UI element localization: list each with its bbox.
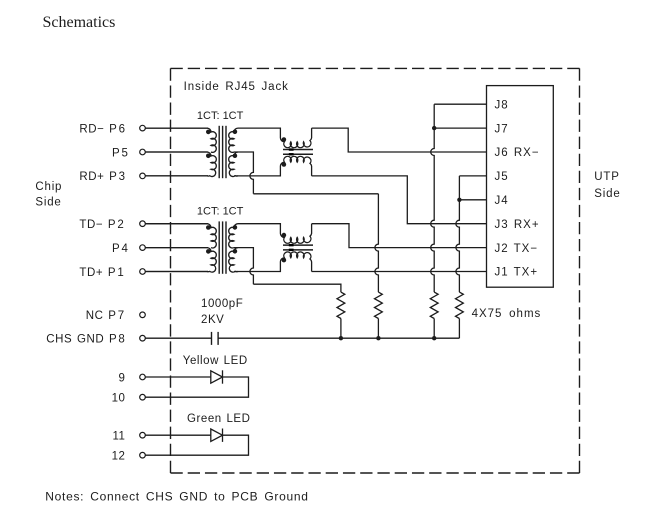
dot choke L1 bottom	[282, 162, 287, 167]
wire P2 to transformer	[145, 223, 208, 225]
secondary winding T1	[229, 128, 238, 152]
svg-text:10: 10	[112, 393, 126, 405]
wire J8	[434, 103, 486, 105]
core of transformer T2	[218, 221, 220, 273]
wire P3 to transformer	[145, 175, 208, 177]
pin circle 12	[140, 452, 146, 458]
pin circle P1	[140, 269, 146, 275]
wire P6 to transformer	[145, 127, 208, 129]
wire RX+ choke to J3	[312, 176, 487, 224]
svg-text:11: 11	[112, 431, 125, 443]
svg-text:UTP: UTP	[594, 171, 619, 183]
wire vertical J5-J4 to R4	[456, 176, 460, 292]
svg-text:9: 9	[119, 372, 126, 384]
choke L1 bottom winding	[238, 156, 312, 176]
pin circle P2	[140, 221, 146, 227]
polarity dots T2 primary	[206, 225, 211, 230]
dashed enclosure Inside RJ45 Jack	[171, 67, 580, 69]
pin circle 11	[140, 432, 146, 438]
wire vertical J8-J7 to R3	[431, 104, 434, 292]
svg-text:NC P7: NC P7	[86, 310, 126, 322]
wire T1 secondary center tap to R2	[234, 152, 253, 194]
secondary winding T2	[229, 224, 238, 248]
svg-text:Yellow LED: Yellow LED	[183, 355, 248, 367]
wire P8 to capacitor	[145, 337, 211, 339]
svg-text:J7: J7	[495, 123, 509, 135]
svg-text:Chip: Chip	[35, 181, 62, 193]
resistor R3 75 ohm	[430, 292, 438, 318]
core of choke L1	[283, 149, 313, 151]
wire J4	[459, 199, 486, 201]
svg-text:Schematics: Schematics	[43, 14, 116, 31]
primary winding T1 (pins top/center/bottom)	[145, 128, 216, 152]
svg-text:2KV: 2KV	[201, 314, 224, 326]
svg-text:Inside RJ45 Jack: Inside RJ45 Jack	[184, 81, 289, 93]
pin circle P7	[140, 312, 146, 318]
svg-text:RD+ P3: RD+ P3	[79, 171, 126, 183]
svg-text:1000pF: 1000pF	[201, 298, 243, 310]
resistor R2 75 ohm	[375, 292, 383, 318]
polarity dots T1 primary	[206, 130, 211, 135]
svg-text:12: 12	[112, 451, 126, 463]
svg-text:Notes: Connect CHS GND to PCB: Notes: Connect CHS GND to PCB Ground	[45, 489, 308, 503]
pin circle 10	[140, 394, 146, 400]
svg-text:1CT: 1CT: 1CT: 1CT	[197, 206, 244, 218]
svg-text:Green LED: Green LED	[187, 413, 250, 425]
dot choke L1 top	[282, 137, 287, 142]
common-mode choke L1 top winding	[238, 128, 312, 148]
wire J5	[459, 175, 486, 177]
junction dot J4	[457, 198, 461, 202]
resistor R4 75 ohm	[456, 292, 464, 318]
svg-text:J2 TX−: J2 TX−	[495, 243, 539, 255]
svg-text:4X75 ohms: 4X75 ohms	[472, 308, 542, 320]
wire P1 to transformer	[145, 271, 208, 273]
wire RX- choke to J6	[312, 128, 487, 152]
LED D2 green with loop pins 11-12	[145, 434, 211, 436]
polarity dots T2 secondary	[233, 225, 238, 230]
svg-text:TD+ P1: TD+ P1	[79, 267, 125, 279]
svg-text:J6 RX−: J6 RX−	[495, 147, 540, 159]
svg-text:P5: P5	[112, 147, 130, 159]
wire common termination node	[218, 337, 459, 339]
capacitor C1 1000pF 2KV	[211, 332, 213, 345]
dot choke L2 top	[282, 233, 287, 238]
svg-text:Side: Side	[35, 196, 61, 208]
svg-text:P4: P4	[112, 243, 130, 255]
svg-text:J3 RX+: J3 RX+	[495, 219, 540, 231]
polarity dots T1 secondary	[233, 130, 238, 135]
junction dot R2	[376, 336, 380, 340]
wire J7	[434, 127, 486, 129]
core of choke L2	[283, 244, 313, 246]
core of transformer T1	[218, 126, 220, 178]
wire TX- choke to J2	[312, 224, 487, 248]
junction dot R3	[432, 336, 436, 340]
common-mode choke L2 top winding	[238, 224, 312, 244]
LED D1 yellow with loop pins 9-10	[145, 376, 211, 378]
svg-text:Side: Side	[594, 188, 620, 200]
resistor R1 75 ohm	[337, 292, 345, 318]
choke L2 bottom winding	[238, 252, 312, 272]
pin circle P4	[140, 245, 146, 251]
primary winding T2 (pins top/center/bottom)	[145, 224, 216, 248]
svg-text:TD− P2: TD− P2	[79, 219, 125, 231]
svg-text:RD− P6: RD− P6	[79, 123, 126, 135]
svg-text:J8: J8	[495, 99, 509, 111]
junction dot J7	[432, 126, 436, 130]
wire P5 to transformer	[145, 151, 208, 153]
dot choke L2 bottom	[282, 258, 287, 263]
pin circle P5	[140, 149, 146, 155]
pin circle P3	[140, 173, 146, 179]
junction dot R1	[339, 336, 343, 340]
pin circle P6	[140, 125, 146, 131]
wire TX+ choke to J1	[312, 271, 487, 273]
pin circle 9	[140, 374, 146, 380]
svg-text:J5: J5	[495, 171, 509, 183]
wire T2 secondary center tap to R1	[234, 248, 253, 285]
svg-text:1CT: 1CT: 1CT: 1CT	[197, 110, 244, 122]
RJ45 connector box	[487, 86, 554, 288]
svg-text:J4: J4	[495, 195, 509, 207]
svg-text:CHS GND P8: CHS GND P8	[46, 334, 126, 346]
svg-text:J1 TX+: J1 TX+	[495, 267, 539, 279]
wire P4 to transformer	[145, 247, 208, 249]
pin circle P8	[140, 335, 146, 341]
